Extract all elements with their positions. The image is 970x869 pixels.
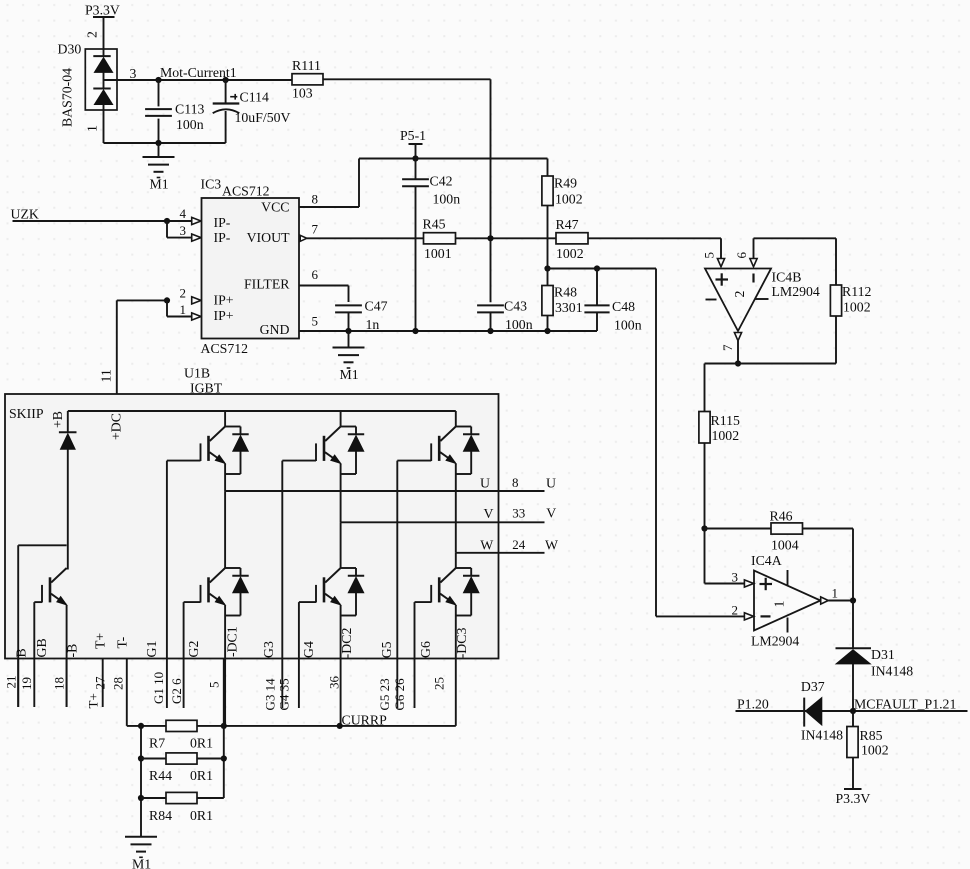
svg-text:T-: T- <box>115 636 130 648</box>
svg-text:UZK: UZK <box>11 207 39 222</box>
pin 4 arrow <box>192 217 201 224</box>
svg-text:2: 2 <box>732 602 739 617</box>
U1B bottom pin names <box>14 626 469 658</box>
svg-text:GND: GND <box>260 322 290 337</box>
node B junction <box>701 525 707 531</box>
wire R111 to C43 node <box>323 79 491 302</box>
svg-text:IC3: IC3 <box>201 177 222 192</box>
svg-text:IP+: IP+ <box>214 308 234 323</box>
op-amp IC4A output arrow pin1 <box>821 586 838 605</box>
svg-text:1002: 1002 <box>861 743 889 758</box>
wire gate G5 <box>396 461 398 708</box>
svg-text:B: B <box>14 648 29 657</box>
svg-text:G5: G5 <box>379 641 394 658</box>
svg-text:C43: C43 <box>504 299 527 314</box>
svg-text:ACS712: ACS712 <box>222 184 270 199</box>
svg-text:1002: 1002 <box>712 428 740 443</box>
wire -B emitter stub <box>66 659 68 708</box>
svg-text:100n: 100n <box>433 192 461 207</box>
diode D37 <box>801 679 843 742</box>
svg-text:10uF/50V: 10uF/50V <box>235 110 291 125</box>
wire P5-1 rail to R49 <box>416 159 548 177</box>
op-amp IC4B triangle <box>705 269 771 332</box>
wire IP+ net from U1B <box>117 297 192 411</box>
svg-text:3301: 3301 <box>555 300 583 315</box>
wire gate G1 <box>166 461 168 708</box>
diode +B <box>50 411 77 570</box>
wire -DC2 <box>340 659 342 726</box>
svg-text:-DC2: -DC2 <box>339 628 354 659</box>
wire sense right rail <box>221 659 227 799</box>
wire to IC4A pin2 <box>656 615 745 617</box>
svg-text:C48: C48 <box>612 299 635 314</box>
svg-text:LM2904: LM2904 <box>751 634 799 649</box>
svg-text:R115: R115 <box>711 413 740 428</box>
power P3.3V top <box>85 3 120 18</box>
resistor R45 <box>423 216 456 261</box>
IC U1B box <box>5 394 499 659</box>
svg-text:SKIIP: SKIIP <box>9 406 44 421</box>
net CURRP wire <box>127 723 456 729</box>
resistor R48 <box>542 269 583 332</box>
svg-text:4: 4 <box>180 206 187 221</box>
svg-text:36: 36 <box>327 676 342 690</box>
svg-text:C42: C42 <box>430 174 453 189</box>
svg-text:1001: 1001 <box>424 246 452 261</box>
power P3.3V bottom <box>836 789 871 806</box>
wire W output <box>456 537 558 553</box>
node A wire to C48 and pin2 net <box>544 265 656 616</box>
transistor Q brake IGBT <box>66 568 68 570</box>
svg-text:103: 103 <box>292 86 313 101</box>
svg-text:1004: 1004 <box>771 538 799 553</box>
svg-text:1002: 1002 <box>555 192 583 207</box>
svg-text:R48: R48 <box>554 285 577 300</box>
wire P3.3V to D30 pin2 <box>103 17 105 49</box>
svg-text:P5-1: P5-1 <box>400 128 426 143</box>
svg-text:5: 5 <box>702 252 717 259</box>
pin stub 28 T- <box>111 659 127 726</box>
pin stub 18 <box>52 659 67 708</box>
svg-text:W: W <box>545 538 558 553</box>
svg-text:V: V <box>546 506 556 521</box>
svg-text:-DC3: -DC3 <box>454 628 469 659</box>
net UZK <box>11 207 193 238</box>
svg-text:G1 10: G1 10 <box>151 672 166 704</box>
svg-text:28: 28 <box>111 677 126 690</box>
svg-text:5: 5 <box>312 314 319 329</box>
svg-text:IC4B: IC4B <box>772 270 802 285</box>
svg-text:3: 3 <box>130 66 137 81</box>
svg-text:IN4148: IN4148 <box>801 728 843 743</box>
svg-text:2: 2 <box>85 31 100 38</box>
svg-text:5: 5 <box>207 682 222 689</box>
svg-text:IP-: IP- <box>214 215 231 230</box>
svg-text:ACS712: ACS712 <box>201 341 249 356</box>
wire node Mot-Current1 <box>104 77 293 83</box>
wire bottom of C113 C114 <box>104 110 226 146</box>
svg-text:R47: R47 <box>556 217 579 232</box>
svg-text:100n: 100n <box>614 318 642 333</box>
svg-text:R111: R111 <box>292 58 321 73</box>
capacitor C114 polarized <box>213 80 291 143</box>
svg-text:IN4148: IN4148 <box>871 664 913 679</box>
svg-text:G3 14: G3 14 <box>263 678 278 711</box>
svg-text:1002: 1002 <box>843 300 871 315</box>
capacitor C48 <box>584 269 641 333</box>
resistor R111 <box>292 58 323 101</box>
svg-text:P3.3V: P3.3V <box>85 3 120 18</box>
svg-text:100n: 100n <box>505 317 533 332</box>
wire -DC1 <box>224 659 226 726</box>
svg-text:R7: R7 <box>149 736 165 751</box>
svg-text:0R1: 0R1 <box>190 808 213 823</box>
IC3 pin names <box>214 200 291 337</box>
svg-text:U: U <box>546 475 556 490</box>
svg-text:U: U <box>480 476 490 491</box>
svg-text:2: 2 <box>732 291 747 298</box>
IC3 ACS712 box <box>202 198 300 339</box>
svg-text:3: 3 <box>732 570 739 585</box>
resistor R112 <box>830 238 871 363</box>
resistor R84 <box>141 792 224 823</box>
svg-text:33: 33 <box>512 506 525 521</box>
svg-text:7: 7 <box>312 222 319 237</box>
transistor T1 top IGBT bridge 1 <box>224 411 226 427</box>
svg-text:M1: M1 <box>132 856 151 869</box>
diode D31 <box>836 601 914 712</box>
svg-text:1: 1 <box>180 302 187 317</box>
svg-text:G1: G1 <box>144 641 159 658</box>
op-amp IC4A pin2 arrow <box>732 602 754 620</box>
svg-text:C113: C113 <box>175 102 204 117</box>
svg-text:IC4A: IC4A <box>751 553 782 568</box>
wire DC bus <box>68 410 456 412</box>
svg-text:R84: R84 <box>149 808 172 823</box>
svg-text:-B: -B <box>64 644 79 658</box>
svg-text:V: V <box>484 506 494 521</box>
svg-text:T+: T+ <box>93 633 108 649</box>
wire GB gate <box>33 602 35 707</box>
svg-text:R44: R44 <box>149 768 172 783</box>
transistor T6 bottom IGBT bridge 3 <box>455 553 457 568</box>
capacitor C47 <box>335 299 388 333</box>
svg-text:IP+: IP+ <box>214 293 234 308</box>
net MCFAULT_P1.21 wire <box>736 708 968 714</box>
ground M1 under C47 <box>333 331 365 382</box>
svg-text:LM2904: LM2904 <box>772 284 820 299</box>
svg-text:VIOUT: VIOUT <box>247 230 290 245</box>
pin stub T+ 27 <box>86 659 108 709</box>
svg-text:21: 21 <box>4 676 19 689</box>
op-amp IC4B pin6 arrow <box>750 259 757 267</box>
ground M1 bottom <box>125 836 157 838</box>
svg-text:G2: G2 <box>186 641 201 658</box>
svg-text:27: 27 <box>93 676 108 690</box>
transistor T5 top IGBT bridge 3 <box>455 411 457 427</box>
svg-text:G4 35: G4 35 <box>277 678 292 710</box>
svg-text:D30: D30 <box>58 42 82 57</box>
resistor R115 <box>699 364 740 529</box>
ground M1 top-left <box>143 143 175 192</box>
wire gate G2 <box>183 602 185 708</box>
svg-text:R46: R46 <box>770 509 793 524</box>
wire -DC3 <box>455 659 457 726</box>
wire IC4A output node <box>828 597 856 603</box>
resistor R49 <box>542 176 583 207</box>
svg-text:D31: D31 <box>871 647 895 662</box>
pin 6 wire FILTER to C47 <box>299 286 349 303</box>
svg-text:1: 1 <box>772 601 787 608</box>
resistor R7 <box>149 720 213 750</box>
svg-text:U1B: U1B <box>184 366 210 381</box>
svg-text:25: 25 <box>432 677 447 690</box>
op-amp IC4A pin3 arrow <box>732 570 754 588</box>
wire U output <box>225 475 556 491</box>
pin stub 21 <box>4 659 19 708</box>
svg-text:2: 2 <box>180 285 187 300</box>
svg-text:R112: R112 <box>842 284 871 299</box>
wire B pin net <box>18 545 66 707</box>
svg-text:0R1: 0R1 <box>190 736 213 751</box>
svg-text:M1: M1 <box>340 367 359 382</box>
svg-text:G5 23: G5 23 <box>377 678 392 710</box>
svg-text:C114: C114 <box>240 90 269 105</box>
resistor R85 <box>847 711 889 789</box>
svg-text:+B: +B <box>50 411 65 428</box>
wire V output <box>341 506 557 523</box>
capacitor C43 <box>477 299 533 333</box>
pin 3 arrow <box>192 234 201 241</box>
resistor R44 <box>141 753 224 783</box>
svg-text:W: W <box>480 537 493 552</box>
svg-text:R45: R45 <box>423 216 446 231</box>
svg-text:1002: 1002 <box>556 246 584 261</box>
svg-text:24: 24 <box>512 537 526 552</box>
svg-text:R49: R49 <box>554 176 577 191</box>
port P5-1 <box>400 128 426 162</box>
pin 2 arrow <box>192 297 201 304</box>
svg-text:GB: GB <box>34 638 49 657</box>
svg-text:19: 19 <box>19 677 34 690</box>
svg-text:FILTER: FILTER <box>244 277 290 292</box>
svg-text:3: 3 <box>180 223 187 238</box>
wire gate G6 <box>414 602 416 708</box>
wire gate G3 <box>281 461 283 708</box>
wire sense left rail <box>138 726 144 837</box>
diode D30 BAS70-04 dual <box>85 49 117 110</box>
svg-text:6: 6 <box>312 267 319 282</box>
capacitor C113 <box>145 80 204 143</box>
pin 1 arrow <box>192 313 201 320</box>
wire IC4B output node <box>705 341 837 367</box>
svg-text:11: 11 <box>99 369 114 382</box>
svg-text:IP-: IP- <box>214 230 231 245</box>
pin 8 wire VCC to P5-1 rail <box>299 159 415 208</box>
svg-text:MCFAULT_P1.21: MCFAULT_P1.21 <box>854 697 956 712</box>
svg-text:M1: M1 <box>150 177 169 192</box>
transistor T2 bottom IGBT bridge 1 <box>224 491 226 568</box>
svg-text:1: 1 <box>832 586 839 601</box>
svg-text:100n: 100n <box>176 117 204 132</box>
svg-text:+DC: +DC <box>109 413 124 440</box>
svg-text:C47: C47 <box>365 299 388 314</box>
op-amp IC4B output arrow pin7 <box>720 333 742 352</box>
resistor R47 <box>556 217 589 261</box>
svg-text:8: 8 <box>312 192 319 207</box>
svg-text:18: 18 <box>52 677 67 690</box>
svg-text:T+: T+ <box>86 693 101 708</box>
transistor T4 bottom IGBT bridge 2 <box>340 522 342 568</box>
pin 5 wire GND rail <box>299 328 597 334</box>
svg-text:P3.3V: P3.3V <box>836 791 871 806</box>
svg-text:IGBT: IGBT <box>190 381 223 396</box>
svg-text:7: 7 <box>720 344 735 351</box>
svg-text:1n: 1n <box>366 317 380 332</box>
svg-text:Mot-Current1: Mot-Current1 <box>160 65 237 80</box>
svg-text:P1.20: P1.20 <box>737 697 769 712</box>
svg-text:G2 6: G2 6 <box>169 678 184 704</box>
wire VIOUT net <box>307 235 721 259</box>
svg-text:BAS70-04: BAS70-04 <box>60 68 75 127</box>
svg-text:G4: G4 <box>301 641 316 658</box>
wire R49 to node A <box>547 206 549 269</box>
wire to IC4A pin3 <box>705 529 745 584</box>
resistor R46 <box>705 509 854 601</box>
svg-text:1: 1 <box>85 125 100 132</box>
svg-text:G6: G6 <box>418 641 433 658</box>
pin 7 output arrow <box>300 235 307 241</box>
pin 6 wire to R112 <box>754 238 837 259</box>
svg-text:R85: R85 <box>860 728 883 743</box>
svg-text:G3: G3 <box>261 641 276 658</box>
transistor T3 top IGBT bridge 2 <box>340 411 342 427</box>
svg-text:D37: D37 <box>801 679 825 694</box>
wire gate G4 <box>298 602 300 708</box>
op-amp IC4A triangle <box>754 570 821 633</box>
op-amp IC4B pin5 arrow <box>717 259 724 267</box>
svg-text:6: 6 <box>734 252 749 259</box>
svg-text:VCC: VCC <box>261 200 289 215</box>
capacitor C42 <box>402 159 460 332</box>
svg-text:-DC1: -DC1 <box>225 626 240 657</box>
svg-text:CURRP: CURRP <box>342 713 388 728</box>
svg-text:8: 8 <box>512 475 519 490</box>
svg-text:0R1: 0R1 <box>190 768 213 783</box>
svg-text:G6 26: G6 26 <box>392 678 407 711</box>
